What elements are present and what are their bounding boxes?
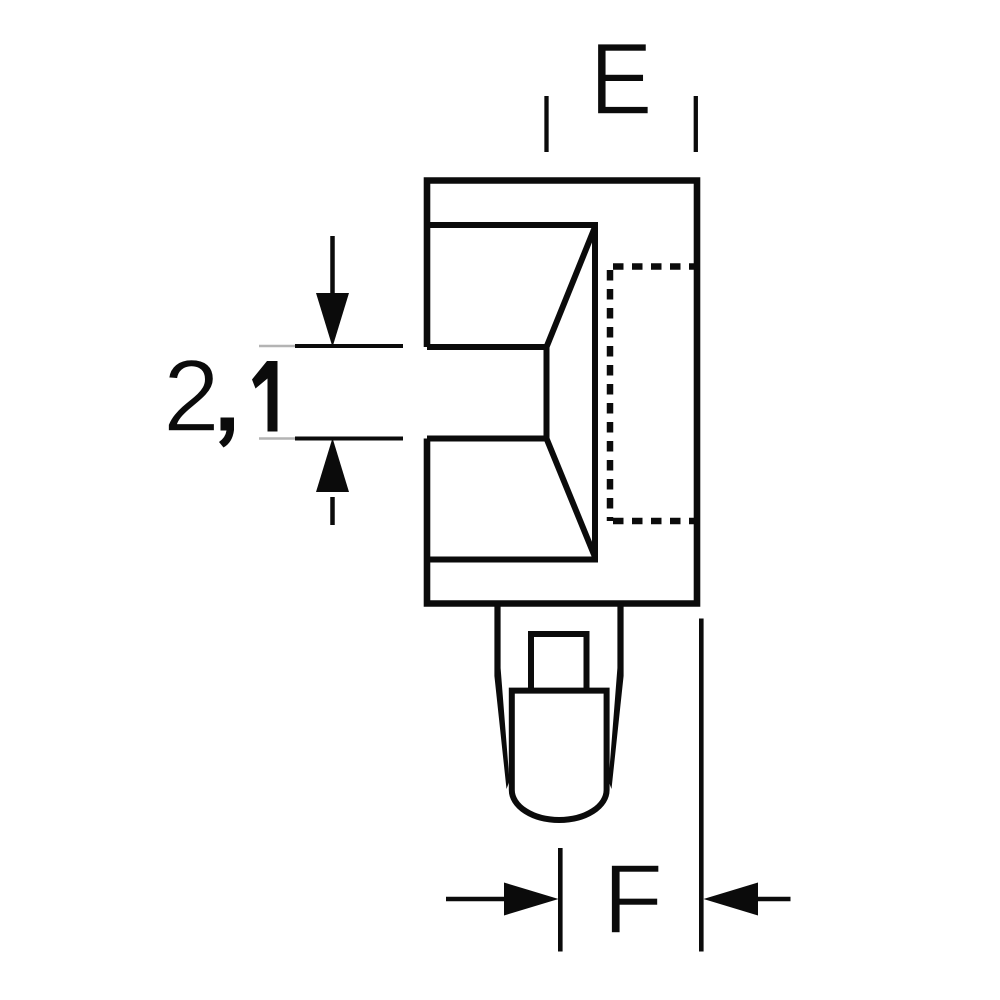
countersink hole lines (427, 225, 595, 560)
dimension 2,1 lower faint extension (259, 437, 295, 440)
dimension F right arrowhead (704, 883, 759, 916)
dimension 2,1 lower arrow shaft (330, 497, 335, 525)
pin bullet head (512, 691, 607, 820)
pin neck rectangle (531, 634, 587, 690)
dimension 2,1 label digit 1 (252, 361, 278, 432)
dimension 2,1 upper arrowhead (316, 293, 349, 347)
svg-text:E: E (590, 21, 653, 135)
dimension E left tick (544, 96, 548, 152)
countersink lower diagonal (547, 439, 596, 558)
dimension F right arrow shaft (756, 897, 791, 902)
slot bottom line (427, 436, 547, 442)
dimension 2,1 lower arrowhead (316, 438, 349, 492)
dimension 2,1 upper extension line (295, 344, 403, 348)
dimension 2,1 upper faint extension (259, 345, 295, 348)
dimension F right extension line (699, 619, 704, 952)
snap pin left wall (494, 603, 509, 789)
countersink upper diagonal (547, 227, 596, 347)
svg-text:2: 2 (163, 339, 220, 453)
svg-text:F: F (603, 844, 663, 954)
slot right vertical (544, 344, 550, 442)
dimension F left extension line (558, 848, 563, 952)
dimension F left arrow shaft (446, 897, 506, 902)
dimension 2,1 upper arrow shaft (330, 236, 335, 296)
body outline (427, 181, 697, 604)
dimension E right tick (694, 96, 698, 152)
snap pin right wall (609, 603, 624, 789)
dashed hidden hole rectangle (610, 267, 697, 522)
dimension F left arrowhead (504, 883, 559, 916)
slot top line (427, 344, 547, 350)
dimension 2,1 lower extension line (295, 437, 403, 441)
dimension 2,1 label comma (219, 418, 234, 448)
